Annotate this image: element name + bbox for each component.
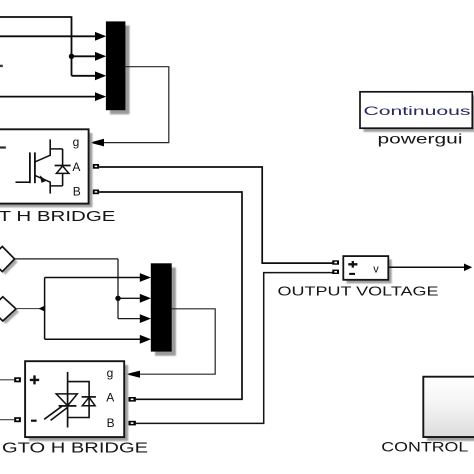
VM1 plus input port square: [332, 260, 339, 264]
VM1 minus input port square: [332, 270, 339, 274]
svg-text:g: g: [107, 366, 114, 380]
thyristor cathode bar: [59, 405, 77, 407]
partial label stub at left edge: [0, 65, 3, 67]
wire IGBT A to voltmeter plus: [99, 167, 332, 263]
VM1 plus label: [348, 261, 357, 268]
IGBT symbol: gate bar: [29, 152, 31, 183]
control block body: [423, 377, 474, 437]
svg-text:powergui: powergui: [378, 131, 463, 147]
IGBT symbol: top link to diode: [50, 148, 62, 150]
control block shadow: [427, 381, 474, 442]
GTO gate diagonal 1: [44, 406, 62, 419]
powergui block shadow: [364, 95, 474, 132]
IGBT B output port square: [93, 190, 99, 195]
svg-text:T H BRIDGE: T H BRIDGE: [0, 208, 115, 225]
arrowhead into IGBT g port: [90, 139, 104, 147]
arrowhead into GTO g port: [126, 371, 140, 378]
arrowhead into mux M1 port 4: [95, 92, 106, 101]
wire VM1 output: [388, 266, 465, 268]
svg-text:B: B: [73, 184, 81, 198]
GTO plus input port square: [14, 377, 21, 382]
svg-text:OUTPUT VOLTAGE: OUTPUT VOLTAGE: [278, 283, 439, 298]
junction dot on S1 net: [115, 296, 120, 301]
junction dot on W2: [69, 54, 74, 59]
svg-text:Continuous: Continuous: [364, 106, 471, 118]
wire diamond S1 net: [15, 259, 141, 319]
svg-text:A: A: [72, 160, 80, 174]
GTO symbol: right branch: [68, 382, 90, 418]
svg-text:GTO H BRIDGE: GTO H BRIDGE: [2, 440, 148, 457]
diode D2 triangle: [82, 397, 95, 405]
arrowhead on S2 stub: [39, 305, 46, 311]
GTO symbol: central vertical: [67, 372, 69, 428]
IGBT symbol: collector stub: [49, 139, 51, 156]
IGBT symbol: bottom link to diode: [50, 185, 62, 187]
GTO H bridge block U2 body: [25, 361, 124, 437]
thyristor triangle: [56, 394, 77, 406]
svg-text:CONTROL: CONTROL: [381, 439, 468, 455]
wire IGBT B to GTO A node: [99, 192, 242, 399]
wire into GTO minus port: [0, 419, 14, 421]
diamond block S2: [0, 297, 16, 321]
IGBT symbol: gate lead: [16, 181, 30, 183]
GTO B output port square: [129, 421, 136, 426]
wire into GTO plus port: [0, 379, 14, 381]
mux M1: [106, 21, 126, 110]
powergui block body: [360, 92, 472, 128]
wire diamond S2 stub: [16, 308, 45, 310]
mux M1 shadow: [110, 26, 130, 115]
diamond block S1 shadow: [0, 250, 18, 275]
svg-text:g: g: [73, 135, 80, 149]
IGBT symbol: emitter stub: [49, 182, 51, 194]
svg-text:v: v: [373, 264, 379, 276]
VM1 minus label: [349, 273, 355, 275]
arrowhead VM1 output: [464, 264, 472, 272]
arrowhead into mux M2 port 2: [140, 294, 151, 303]
arrowhead into mux M2 port 3: [140, 314, 151, 323]
diode D1 lead: [62, 149, 64, 186]
GTO H bridge block U2 shadow: [29, 365, 128, 441]
wire W4 into mux M1 input 4: [0, 96, 96, 98]
diode D1 triangle: [56, 166, 69, 173]
diamond block S2 shadow: [0, 300, 19, 324]
diode D1 cathode bar: [55, 165, 71, 167]
arrowhead into mux M1 port 3: [95, 71, 106, 80]
mux M2: [151, 263, 172, 351]
wire mux M2 feed net vertical: [45, 278, 141, 340]
IGBT H bridge block U1 shadow: [0, 133, 92, 207]
wire mux M2 output to GTO gate: [138, 309, 215, 374]
arrowhead into mux M2 port 1: [140, 273, 151, 282]
IGBT symbol: emitter arrowhead: [40, 175, 47, 183]
arrowhead into mux M1 port 1: [95, 32, 106, 41]
arrowhead into mux M1 port 2: [95, 52, 106, 61]
diamond block S1: [0, 247, 15, 272]
svg-text:B: B: [107, 416, 115, 430]
IGBT symbol: collector diagonal: [35, 155, 50, 162]
voltage measurement block VM1 body: [343, 256, 388, 280]
GTO plus input label: [30, 375, 39, 384]
partial + label stub inside IGBT block: [0, 146, 6, 148]
IGBT symbol: body bar: [34, 152, 36, 183]
GTO minus input port square: [14, 417, 21, 422]
IGBT A output port square: [93, 164, 99, 169]
wire W1 into mux M1 input 1: [0, 35, 96, 37]
GTO minus input label: [31, 420, 37, 422]
GTO gate diagonal 2: [51, 407, 68, 420]
svg-text:A: A: [106, 391, 114, 405]
GTO A output port square: [129, 397, 136, 402]
wire GTO B to voltmeter minus: [136, 273, 333, 424]
IGBT H bridge block U1 body: [0, 129, 89, 203]
IGBT symbol: emitter diagonal: [35, 176, 50, 183]
wire W2 top-left input net: [0, 16, 96, 76]
mux M2 shadow: [155, 268, 176, 356]
diode D2 bar: [82, 396, 96, 398]
arrowhead into mux M2 port 4: [140, 335, 151, 344]
wire mux M1 output to IGBT gate: [102, 67, 169, 143]
voltage measurement block VM1 shadow: [347, 260, 392, 284]
